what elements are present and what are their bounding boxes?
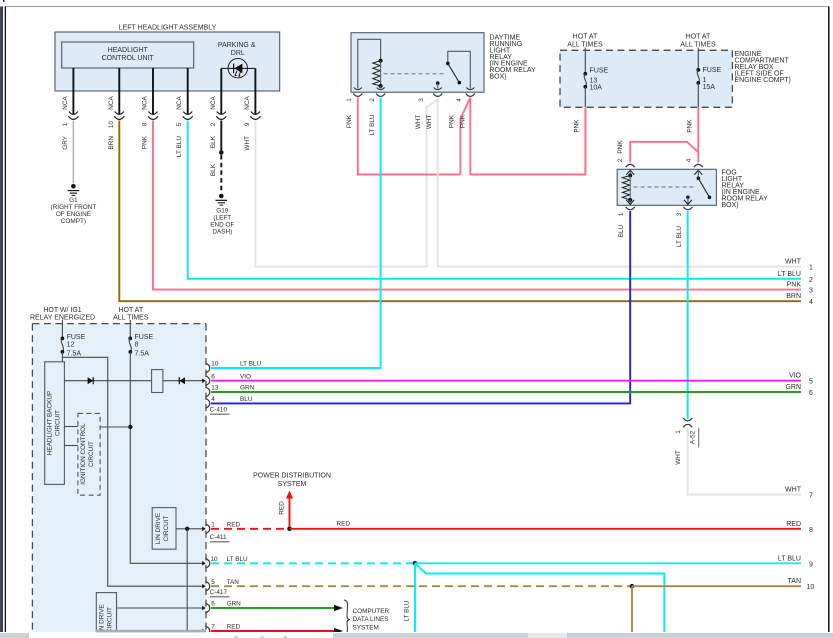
- svg-text:8: 8: [809, 527, 813, 534]
- svg-text:4: 4: [456, 98, 463, 102]
- svg-text:BLK: BLK: [210, 135, 217, 148]
- daytime running light relay box: [351, 33, 536, 92]
- svg-text:C-411: C-411: [210, 534, 227, 541]
- svg-text:1: 1: [675, 430, 682, 434]
- parking & DRL LED D1: [218, 42, 256, 78]
- svg-text:2: 2: [210, 122, 217, 126]
- svg-text:12: 12: [67, 342, 75, 349]
- svg-text:HOT AT: HOT AT: [118, 307, 143, 314]
- svg-text:GRY: GRY: [62, 135, 69, 149]
- wire WHT pin9 to DRL pin3: [244, 100, 438, 267]
- svg-text:BOX): BOX): [722, 202, 739, 209]
- pass-through component box: [152, 370, 163, 393]
- wire VIO row 5: [211, 380, 801, 382]
- fog light relay box: [617, 169, 768, 209]
- svg-text:4: 4: [211, 396, 215, 403]
- svg-text:10: 10: [807, 584, 815, 591]
- wire fuse12 to headlight backup circuit and T to pin5 line: [62, 352, 205, 589]
- svg-text:IGNITION CONTROL: IGNITION CONTROL: [80, 423, 87, 485]
- svg-text:PNK: PNK: [687, 119, 694, 133]
- svg-text:WHT: WHT: [426, 115, 433, 130]
- headlight connector pin 9: [244, 96, 261, 127]
- connector C-410 pin 4: [206, 396, 253, 414]
- svg-text:FUSE: FUSE: [135, 334, 154, 341]
- svg-text:LEFT HEADLIGHT ASSEMBLY: LEFT HEADLIGHT ASSEMBLY: [119, 25, 217, 32]
- svg-text:6: 6: [809, 390, 813, 397]
- svg-text:LT BLU: LT BLU: [403, 600, 410, 621]
- LIN drive circuit box: [152, 508, 176, 550]
- power distribution system arrow: [253, 473, 331, 529]
- svg-text:7.5A: 7.5A: [135, 351, 150, 358]
- svg-text:LT BLU: LT BLU: [676, 226, 683, 247]
- wire lower box to pin 6: [117, 606, 206, 611]
- svg-text:NCA: NCA: [244, 96, 251, 110]
- DRL pin 3: [418, 88, 442, 102]
- DRL relay coil: [358, 39, 383, 88]
- svg-text:NCA: NCA: [108, 96, 115, 110]
- svg-text:PNK: PNK: [617, 140, 624, 154]
- scrollbar strip bottom: [0, 630, 833, 638]
- svg-text:OF ENGINE: OF ENGINE: [56, 211, 91, 218]
- svg-text:PARKING &: PARKING &: [218, 42, 256, 49]
- fog relay dashed link: [634, 186, 697, 188]
- svg-text:NCA: NCA: [176, 96, 183, 110]
- svg-text:1: 1: [62, 122, 69, 126]
- wire PNK DRL pin1: [346, 98, 460, 175]
- svg-text:5: 5: [211, 579, 215, 586]
- svg-text:C-417: C-417: [210, 589, 228, 596]
- fog relay pin 3 (bottom): [676, 207, 693, 216]
- svg-text:RED: RED: [227, 624, 241, 631]
- svg-text:PNK: PNK: [346, 114, 353, 128]
- svg-text:SYSTEM: SYSTEM: [278, 481, 307, 488]
- svg-text:CONTROL UNIT: CONTROL UNIT: [102, 55, 155, 62]
- svg-text:ALL TIMES: ALL TIMES: [113, 315, 149, 322]
- wire GRY pin1: [62, 121, 74, 184]
- connector C-417 pin 10 and LT BLU row 9: [206, 556, 802, 632]
- svg-text:WHT: WHT: [415, 115, 422, 130]
- svg-text:NCA: NCA: [210, 96, 217, 110]
- headlight backup circuit box: [45, 362, 65, 485]
- svg-text:VIO: VIO: [240, 373, 251, 380]
- svg-text:PNK: PNK: [787, 282, 802, 289]
- svg-text:NCA: NCA: [142, 96, 149, 110]
- svg-text:1: 1: [809, 265, 813, 272]
- fuse 12 7.5A: [61, 320, 86, 358]
- connector pin 6 and GRN wire to computer data lines: [206, 601, 344, 613]
- fog relay switch: [684, 169, 711, 205]
- wire LIN to C-411 pin 1, branch to pin 7: [176, 527, 206, 634]
- svg-text:TAN: TAN: [788, 578, 801, 585]
- svg-text:2: 2: [369, 98, 376, 102]
- svg-text:PNK: PNK: [460, 114, 467, 128]
- computer data lines system label with brace: [344, 600, 389, 635]
- svg-text:HEADLIGHT: HEADLIGHT: [108, 47, 149, 54]
- svg-text:G1: G1: [69, 197, 78, 204]
- svg-text:HOT AT: HOT AT: [686, 34, 711, 41]
- svg-text:10: 10: [108, 121, 115, 129]
- svg-text:COMPUTER: COMPUTER: [353, 608, 390, 615]
- svg-text:5: 5: [176, 122, 183, 126]
- svg-text:WHT: WHT: [785, 259, 802, 266]
- svg-text:LT BLU: LT BLU: [778, 555, 801, 562]
- svg-text:(LEFT: (LEFT: [213, 215, 231, 222]
- connector C-410 pin 10: [206, 361, 262, 373]
- wire PNK fuse1 to fog pin4: [687, 108, 699, 163]
- fog relay pin 2 (top): [617, 158, 635, 167]
- DRL relay dashed link: [384, 73, 447, 75]
- svg-text:BOX): BOX): [490, 74, 507, 81]
- wire fuse8 to pin10 line: [100, 352, 206, 566]
- svg-text:SYSTEM: SYSTEM: [353, 625, 379, 632]
- svg-text:10: 10: [211, 556, 219, 563]
- svg-text:FUSE: FUSE: [67, 334, 86, 341]
- svg-text:2: 2: [617, 158, 624, 162]
- wire HBC to C-410 pin 6 with diodes: [64, 377, 205, 384]
- svg-text:GRN: GRN: [785, 384, 801, 391]
- svg-text:13: 13: [590, 78, 598, 85]
- headlight connector pin 2: [210, 96, 227, 127]
- headlight pin leads (black): [73, 68, 255, 115]
- svg-text:(RIGHT FRONT: (RIGHT FRONT: [51, 204, 97, 211]
- svg-text:WHT: WHT: [785, 487, 802, 494]
- svg-text:PNK: PNK: [449, 114, 456, 128]
- svg-text:7: 7: [809, 493, 813, 500]
- svg-text:HEADLIGHT BACKUP: HEADLIGHT BACKUP: [47, 391, 54, 456]
- wire PNK fog pin2 branch: [617, 140, 699, 163]
- svg-text:1: 1: [211, 521, 215, 528]
- svg-text:3: 3: [676, 212, 683, 216]
- wire WHT DRL pin3 to row 1: [415, 98, 801, 267]
- wires HBC to ignition control: [64, 427, 78, 446]
- svg-text:FUSE: FUSE: [590, 68, 609, 75]
- svg-text:6: 6: [211, 601, 215, 608]
- lower LIN drive circuit box (cut): [96, 593, 116, 638]
- svg-text:END OF: END OF: [210, 222, 234, 229]
- fog relay pin 4 (top): [686, 158, 703, 167]
- fuse 8 7.5A: [128, 320, 153, 358]
- svg-text:RED: RED: [227, 521, 241, 528]
- svg-text:GRN: GRN: [240, 385, 255, 392]
- svg-text:DRL: DRL: [231, 50, 245, 57]
- svg-text:RED: RED: [337, 520, 351, 527]
- headlight connector pin 1: [62, 96, 79, 127]
- svg-text:LT BLU: LT BLU: [240, 361, 261, 368]
- right edge wire labels and numbers: [778, 259, 814, 592]
- svg-text:RED: RED: [278, 501, 285, 515]
- svg-text:8: 8: [135, 342, 139, 349]
- headlight connector pin 5: [176, 96, 193, 127]
- connector pin 7 and RED wire to computer data lines: [206, 624, 344, 636]
- svg-text:TAN: TAN: [227, 579, 240, 586]
- connector C-410 pin 6: [206, 373, 252, 385]
- svg-text:15A: 15A: [703, 84, 716, 91]
- svg-text:HOT AT: HOT AT: [573, 34, 598, 41]
- wire BLK pin2: [210, 121, 224, 194]
- DRL pin 1: [346, 88, 362, 102]
- connector C-411 pin 1 and RED row 8: [206, 520, 802, 541]
- svg-text:2: 2: [809, 277, 813, 284]
- headlight connector pin 10: [108, 96, 125, 129]
- svg-text:LT BLU: LT BLU: [778, 271, 801, 278]
- svg-text:6: 6: [211, 373, 215, 380]
- svg-text:CIRCUIT: CIRCUIT: [107, 607, 114, 633]
- svg-text:HOT W/ IG1: HOT W/ IG1: [43, 307, 81, 314]
- wire PNK pin8 to row 3: [142, 121, 802, 290]
- svg-text:GRN: GRN: [227, 601, 242, 608]
- svg-text:WHT: WHT: [675, 450, 682, 465]
- svg-text:7.5A: 7.5A: [67, 351, 82, 358]
- wire BLU fog pin1 to C-410 pin 4: [211, 211, 630, 403]
- ground G1: [51, 184, 97, 225]
- svg-text:A-52: A-52: [689, 430, 696, 444]
- svg-text:PNK: PNK: [142, 135, 149, 149]
- wire BRN pin10 to row 4: [108, 121, 801, 302]
- svg-text:G19: G19: [216, 208, 229, 215]
- wire PNK DRL pin4 left branch: [449, 98, 471, 175]
- DRL relay switch: [436, 51, 470, 88]
- engine compartment relay box: [560, 34, 791, 108]
- svg-text:CIRCUIT: CIRCUIT: [88, 441, 95, 467]
- svg-text:BLU: BLU: [240, 396, 253, 403]
- ignition control circuit dashed box: [78, 413, 100, 495]
- svg-text:PNK: PNK: [574, 119, 581, 133]
- svg-text:COMPT): COMPT): [61, 218, 86, 225]
- wire LT BLU DRL pin2 to C-410 pin 10: [211, 98, 381, 369]
- svg-text:1: 1: [703, 77, 707, 84]
- svg-text:9: 9: [244, 122, 251, 126]
- svg-text:4: 4: [686, 158, 693, 162]
- svg-text:RED: RED: [786, 521, 801, 528]
- svg-text:ALL TIMES: ALL TIMES: [567, 42, 603, 49]
- svg-text:10: 10: [211, 361, 219, 368]
- wire LT BLU fog pin3 to A-52: [676, 211, 688, 419]
- svg-text:BRN: BRN: [786, 293, 801, 300]
- PCM dashed module box: [30, 307, 206, 632]
- svg-text:LT BLU: LT BLU: [227, 556, 248, 563]
- svg-text:10A: 10A: [590, 85, 603, 92]
- svg-text:3: 3: [418, 98, 425, 102]
- svg-text:ENGINE COMPT): ENGINE COMPT): [735, 77, 791, 84]
- svg-text:1: 1: [346, 98, 353, 102]
- left headlight assembly box: [55, 25, 280, 92]
- headlight connector pin 8: [142, 96, 159, 127]
- wire PNK fuse13 down: [574, 108, 586, 175]
- svg-text:BLU: BLU: [618, 224, 625, 237]
- svg-text:13: 13: [211, 385, 219, 392]
- svg-text:C-410: C-410: [210, 406, 228, 413]
- wire LT BLU pin5 to row 2: [176, 121, 801, 279]
- wire GRN row 6: [211, 391, 801, 393]
- connector A-52: [675, 418, 699, 448]
- svg-text:3: 3: [809, 288, 813, 295]
- svg-text:DASH): DASH): [212, 229, 232, 236]
- DRL pin 2: [369, 88, 385, 102]
- svg-text:DATA LINES: DATA LINES: [353, 616, 389, 623]
- headlight control unit box: [62, 42, 194, 68]
- fog relay coil: [622, 169, 634, 205]
- fuse 13 10A: [583, 48, 608, 108]
- svg-text:9: 9: [809, 561, 813, 568]
- svg-text:VIO: VIO: [789, 373, 802, 380]
- svg-text:ALL TIMES: ALL TIMES: [680, 42, 716, 49]
- svg-text:LT BLU: LT BLU: [369, 114, 376, 135]
- svg-text:BLK: BLK: [210, 163, 217, 176]
- svg-text:CIRCUIT: CIRCUIT: [55, 410, 62, 436]
- svg-text:LIN DRIVE: LIN DRIVE: [155, 513, 162, 544]
- svg-text:FUSE: FUSE: [703, 67, 722, 74]
- svg-text:POWER DISTRIBUTION: POWER DISTRIBUTION: [253, 473, 331, 480]
- svg-text:4: 4: [809, 299, 813, 306]
- svg-text:NCA: NCA: [62, 96, 69, 110]
- svg-text:1: 1: [618, 212, 625, 216]
- svg-text:LT BLU: LT BLU: [176, 136, 183, 157]
- connector C-417 pin 5 and TAN row 10: [206, 579, 802, 632]
- svg-text:8: 8: [142, 122, 149, 126]
- svg-text:CIRCUIT: CIRCUIT: [163, 515, 170, 541]
- fuse 1 15A: [696, 48, 721, 108]
- svg-text:5: 5: [809, 379, 813, 386]
- DRL pin 4: [456, 88, 475, 102]
- svg-text:WHT: WHT: [244, 136, 251, 151]
- svg-text:BRN: BRN: [108, 136, 115, 150]
- fog relay pin 1 (bottom): [618, 207, 635, 216]
- ground G19: [210, 194, 234, 236]
- connector C-410 pin 13: [206, 385, 255, 397]
- wire PNK DRL pin4 to fuse 13: [460, 98, 586, 175]
- wire WHT A-52 to row 7: [675, 428, 801, 495]
- svg-text:7: 7: [211, 624, 215, 631]
